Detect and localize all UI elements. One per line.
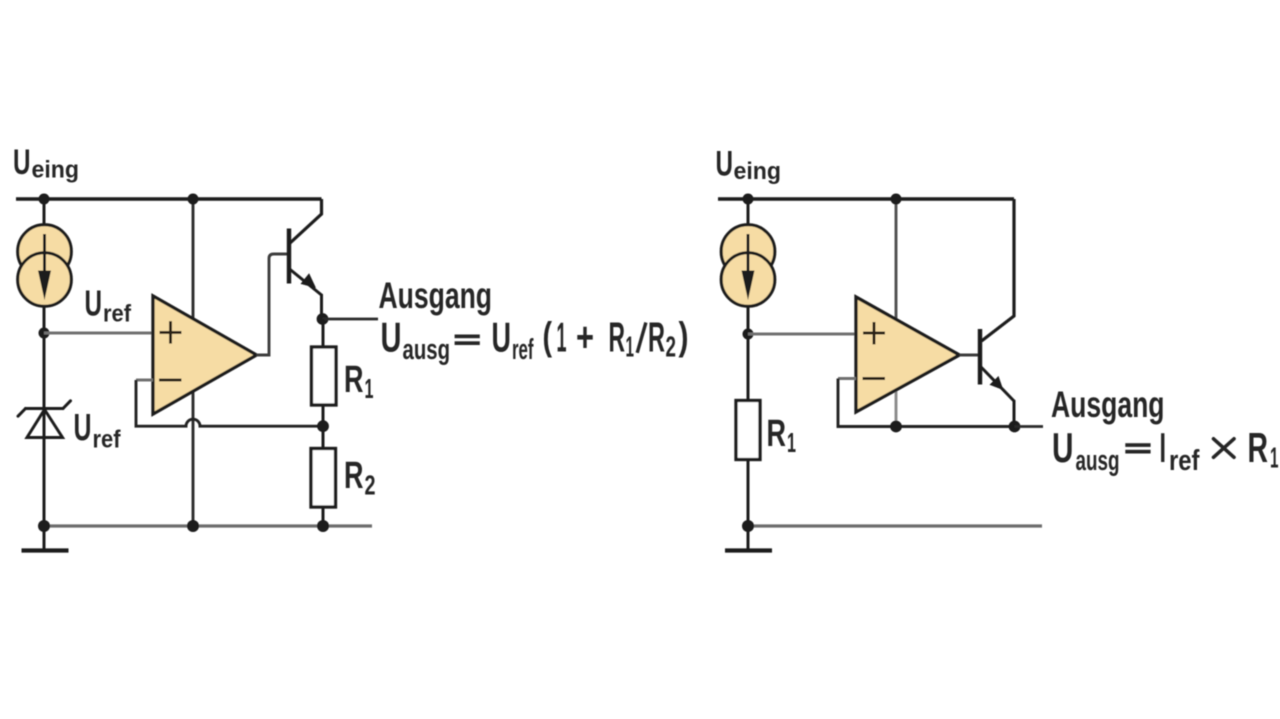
- arrow inside current source (right): [747, 234, 750, 272]
- wire: rail to current source: [43, 199, 46, 230]
- wire: op-amp output to base (right): [960, 354, 979, 357]
- wire: R1 to ground rail (right): [747, 460, 750, 527]
- svg-text:U: U: [716, 145, 734, 184]
- wire: feedback path with hop over supply line: [136, 380, 323, 426]
- node: ground rail below R2: [317, 520, 329, 532]
- svg-text:2: 2: [666, 332, 677, 364]
- svg-text:Ausgang: Ausgang: [1051, 384, 1165, 425]
- svg-text:U: U: [13, 143, 31, 182]
- arrow inside current source: [43, 234, 46, 272]
- svg-text:1: 1: [557, 313, 567, 360]
- resistor R1 (right): [736, 401, 760, 460]
- wire: Uref node to op-amp + input: [44, 332, 153, 335]
- svg-text:ausg: ausg: [1076, 445, 1120, 477]
- node: top rail junction at op-amp supply: [188, 194, 199, 205]
- node: rail junction at op-amp supply (right): [891, 194, 902, 205]
- wire: op-amp output to transistor base: [257, 254, 288, 355]
- svg-text:ref: ref: [103, 301, 132, 328]
- ground rail (left circuit): [44, 524, 372, 527]
- op-amp - input marking (right): [863, 377, 886, 380]
- node: op-amp supply joins feedback wire: [890, 421, 902, 433]
- svg-text:1: 1: [365, 373, 374, 404]
- transistor Q2: [978, 329, 982, 385]
- node: rail junction at current source (right): [743, 194, 754, 205]
- wire: collector drop from rail corner: [290, 199, 322, 244]
- svg-text:ref: ref: [512, 334, 534, 366]
- op-amp U1: [153, 296, 257, 414]
- svg-text:R: R: [767, 413, 787, 455]
- node: ground rail left: [38, 520, 50, 532]
- resistor R1 (left): [312, 347, 337, 405]
- svg-text:U: U: [1052, 424, 1074, 471]
- wire: feedback stub into - input: [136, 379, 153, 382]
- svg-text:eing: eing: [734, 158, 782, 185]
- wire: feedback node to R2: [322, 426, 325, 449]
- wire: rail to current source (right): [747, 199, 750, 230]
- wire: collector drop right: [982, 199, 1015, 341]
- svg-text:1: 1: [787, 427, 796, 458]
- svg-text:ref: ref: [1169, 445, 1200, 477]
- transistor Q1: [287, 229, 291, 284]
- wire: output stub to label (right): [1015, 425, 1044, 428]
- op-amp - input marking: [159, 379, 182, 382]
- ground symbol: [43, 526, 46, 549]
- svg-text:1: 1: [626, 332, 635, 364]
- wire: vertical supply to op-amp (right, behind op-amp): [895, 199, 898, 360]
- svg-text:ausg: ausg: [403, 334, 451, 366]
- svg-text:R: R: [344, 455, 364, 497]
- zener diode D1: [18, 401, 71, 438]
- node: output node (emitter): [317, 313, 329, 325]
- svg-text:U: U: [85, 283, 103, 324]
- resistor R2: [311, 449, 336, 508]
- node: reference node below current source: [39, 328, 50, 339]
- svg-text:(: (: [543, 316, 553, 359]
- op-amp + input marking: [160, 321, 182, 343]
- wire: top supply rail (right circuit): [718, 197, 1014, 200]
- svg-text:): ): [679, 316, 689, 359]
- svg-text:R: R: [344, 359, 364, 401]
- wire: feedback stub into - input (right): [838, 377, 856, 380]
- svg-text:+: +: [576, 313, 594, 360]
- wire: feedback path (right): [838, 379, 1015, 427]
- svg-text:I: I: [1160, 424, 1167, 471]
- wire: vertical supply to op-amp (behind op-amp): [192, 199, 195, 526]
- node: feedback junction between R1 and R2: [317, 420, 329, 432]
- svg-text:Ausgang: Ausgang: [379, 275, 493, 316]
- op-amp + input marking (right): [863, 322, 885, 344]
- wire: output node down to R1: [322, 319, 325, 347]
- svg-text:R: R: [609, 313, 626, 360]
- svg-text:1: 1: [1270, 443, 1279, 475]
- current source I1 (two overlapping circles): [18, 225, 72, 279]
- svg-text:R: R: [648, 313, 665, 360]
- svg-text:2: 2: [365, 470, 376, 501]
- wire: R1 to feedback node: [322, 405, 325, 426]
- ground symbol (right): [747, 526, 750, 549]
- wire: current source down to R1 (right): [747, 300, 750, 401]
- node: top rail junction at current source: [39, 194, 50, 205]
- svg-text:U: U: [74, 407, 92, 449]
- node: output node (right): [1009, 421, 1021, 433]
- wire: output stub to label: [323, 318, 379, 321]
- svg-text:ref: ref: [93, 426, 122, 454]
- wire: node to op-amp + input (right): [748, 333, 856, 336]
- node: + input node (right): [743, 329, 754, 340]
- svg-text:U: U: [492, 313, 512, 360]
- svg-text:R: R: [1248, 424, 1269, 471]
- node: ground rail at op-amp supply: [187, 520, 199, 532]
- svg-text:eing: eing: [32, 157, 80, 184]
- wire: R2 to ground rail: [322, 508, 325, 527]
- svg-text:U: U: [381, 313, 402, 360]
- ground rail (right circuit): [748, 524, 1042, 527]
- node: ground rail below R1 (right): [742, 520, 754, 532]
- op-amp U2: [856, 297, 960, 412]
- current source I2: [721, 225, 775, 279]
- wire: top supply rail (left circuit): [16, 197, 322, 200]
- wire: current source to Uref node, down through zener to ground rail: [43, 300, 46, 526]
